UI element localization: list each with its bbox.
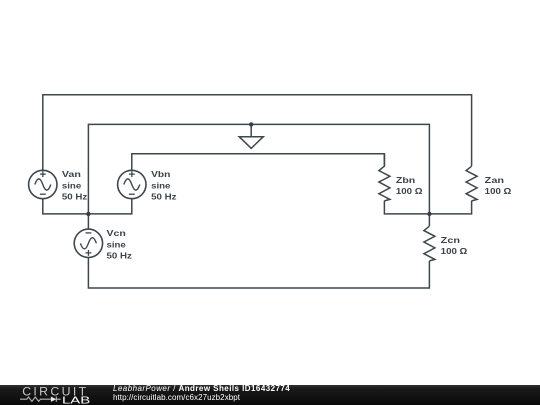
svg-text:Zbn: Zbn [396,175,415,185]
svg-text:Zan: Zan [485,175,504,185]
ground [239,124,263,148]
junction: neutral at loads [427,212,431,216]
voltage source Vcn (inverted polarity) [74,229,102,257]
voltage source Vbn [118,170,146,198]
footer url [113,393,240,402]
svg-text:sine: sine [107,240,127,250]
footer bar [0,385,540,405]
svg-text:50 Hz: 50 Hz [151,192,176,202]
resistor Zan [466,166,477,201]
svg-text:100 Ω: 100 Ω [485,186,512,196]
svg-text:100 Ω: 100 Ω [441,246,468,256]
voltage source Van [29,170,57,198]
resistor Zcn [424,214,435,261]
svg-text:sine: sine [151,181,171,191]
wire neutral: source common up-over to load common, via ground tap [88,124,429,213]
junction: ground tap [249,122,253,126]
resistor Zbn [379,154,390,201]
svg-text:Vcn: Vcn [107,228,126,238]
svg-text:Van: Van [62,169,81,179]
footer title: LeabharPower / Andrew Sheils ID16432774 [113,384,290,393]
svg-text:Zcn: Zcn [441,235,460,245]
CircuitLab logo [0,385,110,405]
wire bottom: Vcn+ to Zcn bottom [88,258,429,289]
svg-text:100 Ω: 100 Ω [396,186,423,196]
svg-text:50 Hz: 50 Hz [62,192,87,202]
svg-text:50 Hz: 50 Hz [107,250,132,260]
junction: neutral at sources [86,212,90,216]
wire Vbn+ to Zbn top [132,154,385,171]
wire Zbn bottom to load common [384,201,429,214]
svg-text:LAB: LAB [62,396,90,405]
wire Vcn top lead [87,214,89,229]
wire Zan bottom to load common [429,201,471,214]
svg-text:Vbn: Vbn [151,169,170,179]
wire source commons: Van- and Vbn- to neutral junction [43,199,132,214]
wire top: Van+ to Zan top [43,95,472,171]
svg-text:sine: sine [62,181,82,191]
